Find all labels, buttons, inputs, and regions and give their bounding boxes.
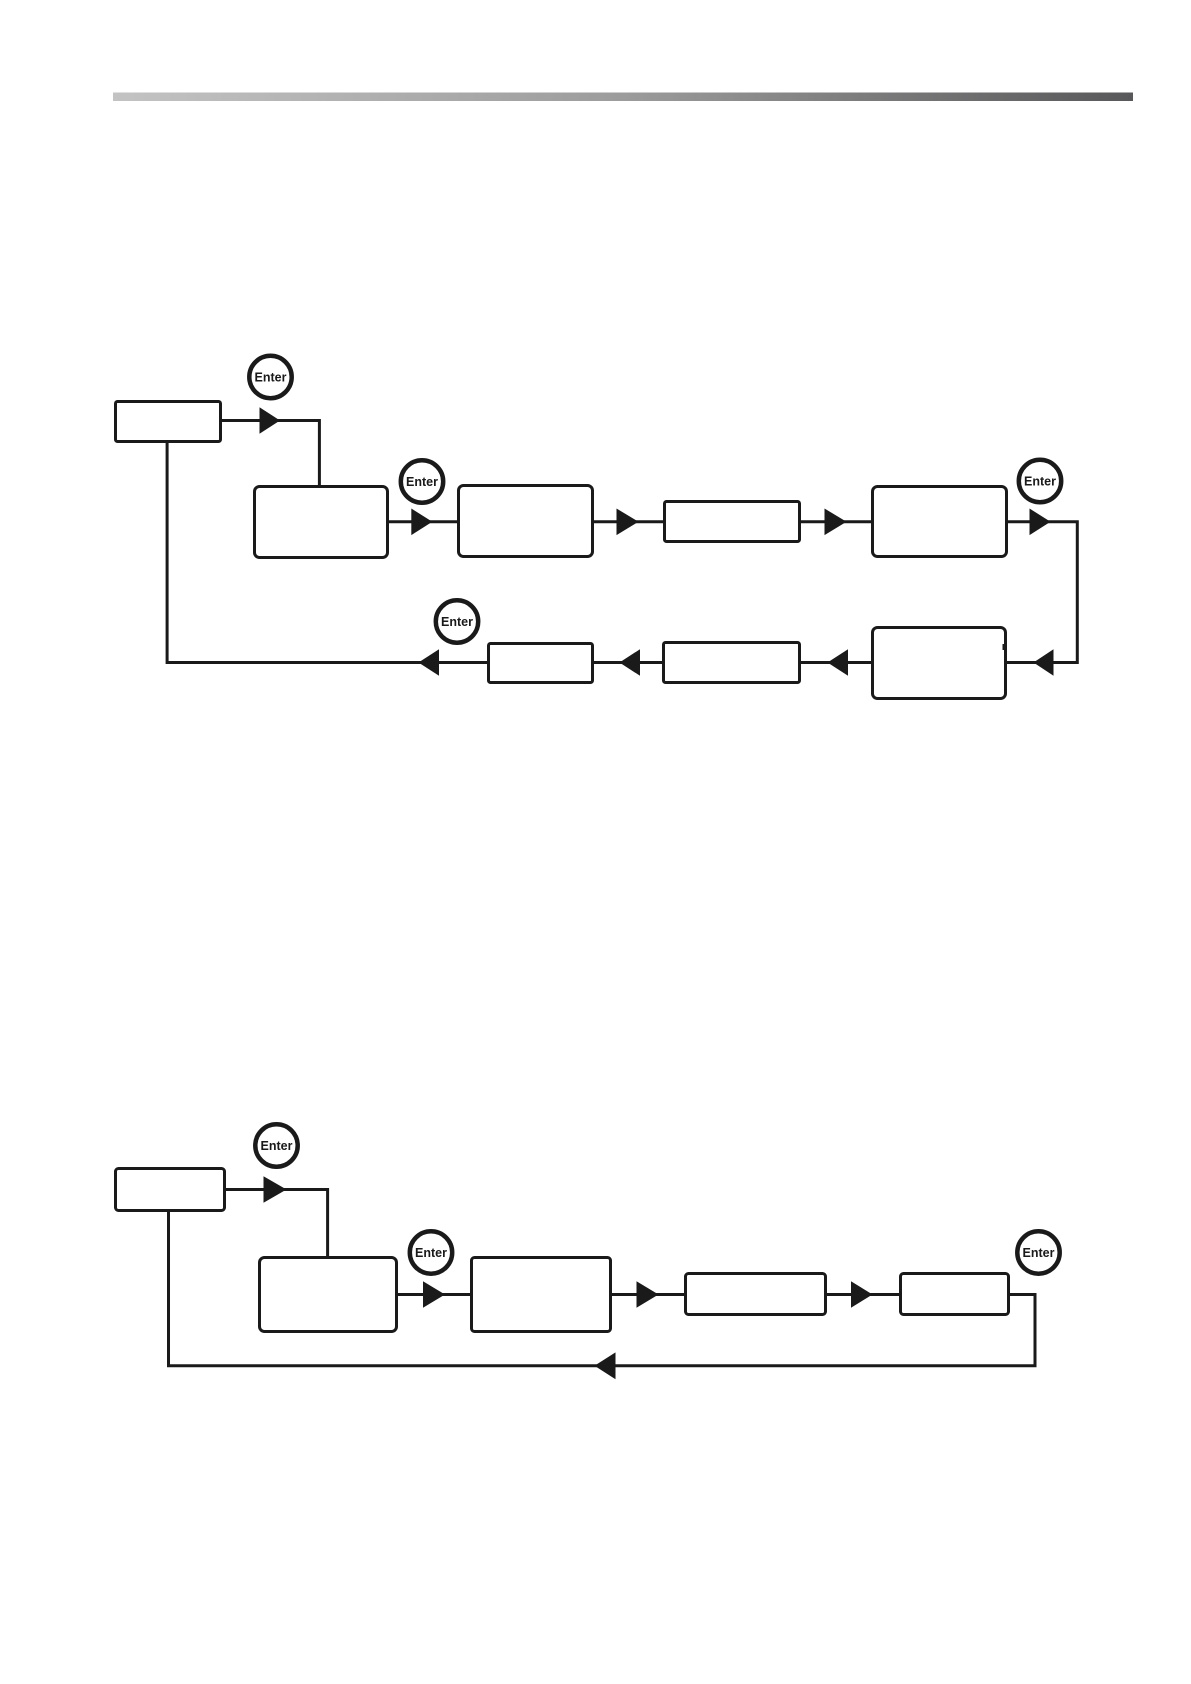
- wire F6 to F7: [801, 661, 871, 664]
- box F8 (second row small box): [489, 644, 593, 683]
- arrowhead right on wire G4-G5: [851, 1281, 873, 1308]
- box F3 (first row large box 2): [459, 486, 593, 557]
- Enter circle K5 (above box G1): [255, 1124, 297, 1166]
- return wire from F8 left back up to box F1 bottom: [167, 443, 487, 663]
- Enter circle K3 (top right): [1019, 460, 1061, 502]
- svg-text:Enter: Enter: [441, 615, 473, 629]
- box F4 (first row thin box): [665, 502, 800, 542]
- Enter circle K1 (above box F1): [249, 356, 291, 398]
- arrowhead right on wire G3-G4: [637, 1281, 659, 1308]
- svg-text:Enter: Enter: [415, 1246, 447, 1260]
- box G3 (large box 2): [472, 1258, 611, 1332]
- wire G3 to G4: [612, 1293, 684, 1296]
- wire G4 to G5: [827, 1293, 899, 1296]
- box F1 (top-left small box): [116, 402, 221, 442]
- box F6 (second row large box right): [873, 628, 1006, 699]
- box G5 (small box right): [901, 1274, 1009, 1315]
- arrowhead right on wire leaving F5: [1030, 509, 1051, 536]
- box G1 (top-left small box): [116, 1169, 225, 1211]
- cursor tick inside box F6: [1003, 644, 1005, 650]
- arrowhead right on wire F3-F4: [617, 509, 639, 536]
- svg-text:Enter: Enter: [261, 1139, 293, 1153]
- arrowhead left on wire F7-F8: [620, 649, 641, 676]
- svg-text:Enter: Enter: [1023, 1246, 1055, 1260]
- box F2 (first row large box 1): [255, 487, 388, 558]
- wire F4 to F5: [801, 520, 871, 523]
- arrowhead right on wire F4-F5: [825, 509, 847, 536]
- wire from box F1 right to drop into box F2: [222, 421, 319, 486]
- wire from box G1 right to drop into box G2: [226, 1190, 328, 1257]
- wire G2 to G3: [398, 1293, 470, 1296]
- Enter circle K2 (above wire F2-F3): [401, 460, 443, 502]
- Enter circle K6: [410, 1231, 452, 1273]
- Enter circle K4 (second row): [436, 600, 478, 642]
- top horizontal gradient rule: [113, 93, 1133, 102]
- Enter circle K7 (top right): [1017, 1231, 1059, 1273]
- arrowhead right on wire G2-G3: [423, 1281, 445, 1308]
- svg-text:Enter: Enter: [255, 371, 287, 385]
- arrowhead left on return wire: [419, 649, 440, 676]
- arrowhead right on wire F2-F3: [411, 509, 432, 536]
- box G2 (large box 1): [260, 1258, 397, 1332]
- svg-text:Enter: Enter: [1024, 475, 1056, 489]
- box F7 (second row thin box): [664, 643, 800, 683]
- arrowhead right on wire F1-F2: [260, 407, 281, 434]
- arrowhead left entering box F6: [1034, 649, 1054, 676]
- wire F7 to F8: [594, 661, 662, 664]
- wire F5 right, down, into box F6 right side: [1007, 522, 1077, 663]
- arrowhead right on wire G1-G2: [264, 1176, 287, 1203]
- box G4 (thin box): [686, 1274, 826, 1315]
- wire F2 to F3: [389, 520, 457, 523]
- box F5 (first row large box 3): [873, 487, 1007, 557]
- arrowhead left on wire F6-F7: [828, 649, 849, 676]
- wire F3 to F4: [594, 520, 663, 523]
- return wire from G5 right, down, along bottom, up to box G1 bottom: [169, 1212, 1036, 1366]
- svg-text:Enter: Enter: [406, 475, 438, 489]
- arrowhead left on bottom return wire: [595, 1352, 616, 1379]
